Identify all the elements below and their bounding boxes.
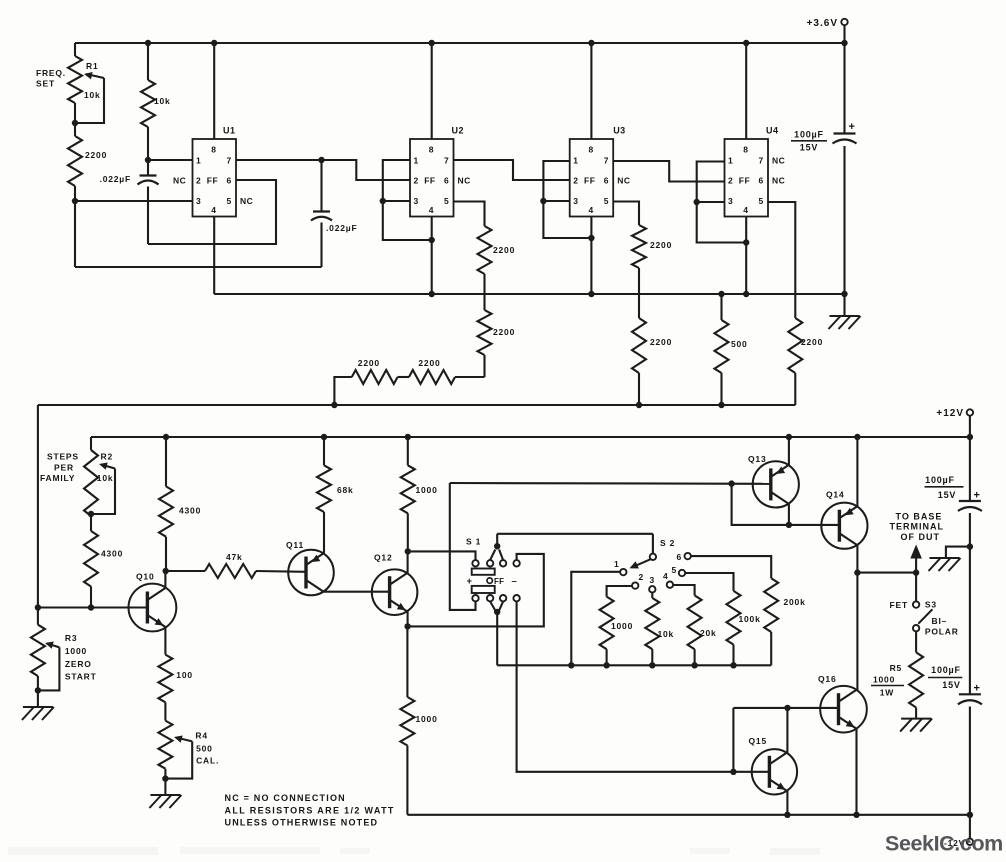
svg-text:UNLESS OTHERWISE NOTED: UNLESS OTHERWISE NOTED bbox=[225, 818, 379, 828]
wire Q16 base to Q15 base link bbox=[732, 708, 734, 772]
op-amp U1 flip-flop bbox=[193, 139, 237, 217]
svg-text:15V: 15V bbox=[938, 490, 956, 500]
svg-text:8: 8 bbox=[211, 145, 216, 155]
svg-text:7: 7 bbox=[759, 156, 764, 166]
svg-text:S 1: S 1 bbox=[466, 537, 481, 547]
transistor Q16 bbox=[820, 686, 867, 733]
resistor 1000 lower bbox=[406, 626, 408, 697]
resistor 47k bbox=[166, 570, 205, 572]
svg-text:–: – bbox=[512, 576, 517, 587]
svg-text:500: 500 bbox=[731, 339, 748, 349]
svg-text:6: 6 bbox=[677, 552, 683, 562]
wire U2 pin1 loop bbox=[383, 160, 432, 240]
svg-text:7: 7 bbox=[604, 156, 609, 166]
wire U1 pin3 bbox=[75, 200, 193, 202]
svg-text:2: 2 bbox=[414, 176, 419, 186]
node bottom rail right bbox=[967, 812, 973, 818]
svg-text:+12V: +12V bbox=[936, 408, 964, 419]
svg-text:500: 500 bbox=[196, 743, 213, 753]
node pin3 feed bbox=[72, 198, 78, 204]
resistor 2200 horizontal left bbox=[398, 376, 409, 378]
node U3 pin3 bbox=[540, 198, 546, 204]
svg-text:FF: FF bbox=[739, 176, 750, 186]
node S1 bottom common bbox=[494, 609, 500, 615]
wire S1 top terminals 2,3 common bbox=[490, 550, 495, 561]
node rail Q14 bbox=[854, 434, 860, 440]
wire Q10 collector bbox=[164, 571, 166, 588]
node R4 wiper bbox=[162, 775, 168, 781]
svg-text:2200: 2200 bbox=[358, 358, 380, 368]
svg-text:5: 5 bbox=[759, 196, 764, 206]
wire C2 bottom return bbox=[75, 266, 322, 268]
svg-text:TERMINAL: TERMINAL bbox=[890, 522, 945, 532]
resistor 10k vertical bbox=[147, 43, 149, 80]
svg-text:2200: 2200 bbox=[493, 327, 515, 337]
svg-text:U3: U3 bbox=[613, 126, 626, 136]
wire +12V rail bbox=[91, 436, 970, 438]
svg-text:STEPS: STEPS bbox=[47, 452, 79, 462]
svg-text:2200: 2200 bbox=[650, 337, 672, 347]
svg-text:100k: 100k bbox=[739, 614, 761, 624]
svg-text:10k: 10k bbox=[154, 96, 171, 106]
svg-text:2200: 2200 bbox=[85, 150, 107, 160]
capacitor 100uF 15V mid bbox=[959, 500, 981, 502]
wire U4 pin3 bbox=[697, 201, 725, 203]
capacitor 100uF 15V top bbox=[843, 43, 845, 134]
svg-text:FAMILY: FAMILY bbox=[40, 473, 75, 483]
wire horizontal 2200 to bus bbox=[334, 377, 351, 405]
svg-text:1: 1 bbox=[728, 156, 733, 166]
resistor 20k bank bbox=[673, 585, 695, 595]
node rail Q13 bbox=[786, 434, 792, 440]
wire Q11 collector to Q12 base bbox=[324, 591, 390, 593]
node Q15 collector / Q16 base bbox=[784, 705, 790, 711]
wire U1 pin1 bbox=[148, 159, 193, 161]
ground below R4 bbox=[150, 794, 180, 796]
wire Q16 emitter down bbox=[855, 728, 857, 814]
capacitor .022uF C1 bbox=[147, 160, 149, 176]
svg-text:SET: SET bbox=[36, 79, 55, 89]
wire S1 top rail to Q13 base bbox=[450, 482, 771, 485]
capacitor 100uF 15V bottom bbox=[959, 693, 981, 695]
node U1 pin7 / C2 bbox=[318, 157, 324, 163]
wire +3.6V top supply rail bbox=[75, 42, 845, 44]
svg-text:.022µF: .022µF bbox=[326, 223, 357, 233]
wire Q15 collector up bbox=[786, 708, 788, 753]
svg-text:FF: FF bbox=[207, 176, 218, 186]
wire pin4 common line bbox=[214, 293, 844, 295]
svg-text:1: 1 bbox=[414, 156, 419, 166]
svg-text:R4: R4 bbox=[195, 730, 207, 740]
svg-text:6: 6 bbox=[604, 176, 609, 186]
node U3 pin4 bus bbox=[588, 291, 594, 297]
wire -12V bottom rail bbox=[407, 814, 970, 816]
svg-text:1000: 1000 bbox=[416, 485, 438, 495]
node Q15 emitter rail bbox=[784, 812, 790, 818]
capacitor .022uF C2 bbox=[320, 160, 322, 212]
svg-text:4: 4 bbox=[429, 205, 434, 215]
ground below R5 bbox=[901, 718, 931, 720]
svg-text:START: START bbox=[65, 672, 97, 682]
svg-text:NC = NO CONNECTION: NC = NO CONNECTION bbox=[225, 793, 346, 803]
node Q12 emitter junction bbox=[404, 623, 410, 629]
svg-text:5: 5 bbox=[604, 196, 609, 206]
svg-text:5: 5 bbox=[444, 196, 449, 206]
wire U2 pin7 to U3 pin2 bbox=[454, 160, 570, 180]
resistor 68k bbox=[323, 437, 325, 465]
svg-text:5: 5 bbox=[672, 565, 678, 575]
svg-text:1: 1 bbox=[196, 156, 201, 166]
wire Q14 emitter to rail bbox=[856, 437, 858, 507]
node U2 pin3 bbox=[380, 198, 386, 204]
svg-text:6: 6 bbox=[227, 176, 232, 186]
wire U4 pin1 loop bbox=[697, 162, 747, 243]
svg-text:NC: NC bbox=[240, 196, 253, 206]
svg-text:+: + bbox=[974, 683, 980, 695]
svg-text:1000: 1000 bbox=[873, 675, 895, 685]
svg-text:Q16: Q16 bbox=[818, 674, 836, 684]
node Q13 collector / Q14 base bbox=[786, 522, 792, 528]
ground mid right bbox=[946, 547, 970, 558]
svg-text:+3.6V: +3.6V bbox=[807, 18, 838, 29]
svg-text:2: 2 bbox=[573, 176, 578, 186]
svg-text:POLAR: POLAR bbox=[925, 627, 959, 637]
wire U3 pin1 loop bbox=[543, 161, 591, 238]
svg-text:20k: 20k bbox=[700, 628, 717, 638]
node U1 pin1 bbox=[145, 157, 151, 163]
svg-text:47k: 47k bbox=[226, 552, 243, 562]
svg-text:NC: NC bbox=[772, 176, 785, 186]
op-amp U2 flip-flop bbox=[410, 139, 454, 217]
resistor 100k bank bbox=[685, 573, 733, 591]
resistor 2200 U2 chain lower bbox=[478, 310, 492, 355]
svg-text:R3: R3 bbox=[65, 633, 77, 643]
resistor 2200 U3 chain upper bbox=[632, 225, 646, 268]
svg-text:FF: FF bbox=[494, 577, 504, 586]
svg-text:NC: NC bbox=[458, 176, 471, 186]
node U3 chain bus bbox=[636, 402, 642, 408]
svg-text:+: + bbox=[849, 121, 855, 133]
wire S1 terminal4 to Q15 base bbox=[517, 601, 770, 771]
svg-text:2: 2 bbox=[196, 176, 201, 186]
terminal -12V bbox=[969, 815, 971, 839]
svg-text:R5: R5 bbox=[890, 663, 902, 673]
svg-text:Q12: Q12 bbox=[374, 553, 392, 563]
svg-text:Q11: Q11 bbox=[286, 540, 304, 550]
potentiometer R2 STEPS PER FAMILY 10k bbox=[90, 437, 92, 450]
wire S1 bottom terminals 2,3 common bbox=[490, 601, 495, 610]
svg-text:4: 4 bbox=[663, 571, 669, 581]
svg-text:200k: 200k bbox=[784, 597, 806, 607]
node 500 bus bbox=[718, 402, 724, 408]
resistor 1000 bank bbox=[607, 586, 633, 597]
svg-text:TO BASE: TO BASE bbox=[896, 511, 943, 521]
svg-text:NC: NC bbox=[173, 176, 186, 186]
wire U2 pin5 bbox=[454, 202, 485, 227]
wire Q16 base bbox=[733, 707, 838, 709]
terminal +3.6V bbox=[841, 19, 847, 25]
wire S1 to S2 common bbox=[497, 533, 653, 535]
node 4300 base junction bbox=[88, 604, 94, 610]
resistor R5 1000 1W bbox=[915, 631, 917, 652]
svg-text:6: 6 bbox=[444, 176, 449, 186]
svg-text:2200: 2200 bbox=[418, 358, 440, 368]
resistor 500 bbox=[718, 291, 724, 297]
wire S1 bottom common to bank bus bbox=[496, 612, 498, 665]
wire U1 pin4 down bbox=[213, 217, 215, 295]
ground lower left bbox=[23, 706, 53, 708]
node U2 pin4 loop bbox=[429, 237, 435, 243]
svg-text:2200: 2200 bbox=[801, 337, 823, 347]
svg-text:FREQ.: FREQ. bbox=[36, 68, 66, 78]
node S1 top common bbox=[494, 543, 500, 549]
svg-text:+: + bbox=[467, 576, 473, 587]
resistor 2200 U4 chain bbox=[788, 318, 802, 373]
wire Q13 base loop down bbox=[732, 484, 840, 525]
node terminal1 bus bbox=[568, 662, 574, 668]
op-amp U4 flip-flop bbox=[725, 139, 769, 217]
wire U4 pin5 bbox=[768, 202, 795, 318]
svg-text:4: 4 bbox=[589, 205, 594, 215]
wire U4 pin8 to rail bbox=[745, 43, 747, 139]
transistor Q10 bbox=[129, 584, 177, 632]
wire Q13 collector down bbox=[788, 504, 790, 525]
node U4 pin3 bbox=[694, 199, 700, 205]
svg-text:3: 3 bbox=[573, 196, 578, 206]
svg-text:S3: S3 bbox=[925, 600, 937, 610]
node R3 wiper bbox=[35, 687, 41, 693]
svg-text:U1: U1 bbox=[223, 126, 236, 136]
switch S3 FET/BI-POLAR bbox=[915, 573, 917, 602]
svg-text:2: 2 bbox=[728, 176, 733, 186]
svg-text:+: + bbox=[974, 490, 980, 502]
wire Q10 emitter bbox=[164, 627, 166, 655]
svg-text:FET: FET bbox=[890, 600, 908, 610]
wire U4 pin4 down bbox=[745, 217, 747, 295]
svg-text:3: 3 bbox=[650, 575, 656, 585]
svg-text:BI–: BI– bbox=[932, 616, 948, 626]
node Q10 collector junction bbox=[163, 568, 169, 574]
node rail 68k bbox=[321, 434, 327, 440]
svg-text:1: 1 bbox=[573, 156, 578, 166]
transistor Q12 bbox=[372, 569, 418, 615]
node ground tap bbox=[967, 543, 973, 549]
node Q15 base link bbox=[730, 769, 736, 775]
resistor 2200 U3 chain lower bbox=[632, 318, 646, 373]
wire U1 pin6 loop bbox=[148, 180, 276, 244]
wire Q12 collector up bbox=[407, 551, 409, 573]
wire Q10 base bbox=[38, 606, 147, 608]
wire U3 pin8 to rail bbox=[590, 43, 592, 139]
transistor Q14 bbox=[821, 503, 867, 549]
resistor 10k bank bbox=[651, 593, 653, 599]
svg-text:S 2: S 2 bbox=[660, 538, 675, 548]
node cap branch pin4 line bbox=[841, 291, 847, 297]
node U2 pin4 bus bbox=[429, 291, 435, 297]
wire lower bus bbox=[38, 404, 795, 406]
svg-text:NC: NC bbox=[617, 176, 630, 186]
svg-text:R2: R2 bbox=[101, 452, 113, 462]
node +12V rail right bbox=[967, 434, 973, 440]
potentiometer R1 FREQ. SET 10k bbox=[74, 43, 76, 56]
svg-text:8: 8 bbox=[743, 145, 748, 155]
svg-text:4: 4 bbox=[211, 205, 216, 215]
svg-text:U4: U4 bbox=[766, 126, 779, 136]
wire U1 pin7 to U2 pin2 bbox=[322, 160, 411, 180]
svg-text:Q13: Q13 bbox=[748, 454, 766, 464]
arrow TO BASE TERMINAL OF DUT bbox=[915, 556, 917, 573]
svg-text:100µF: 100µF bbox=[931, 665, 961, 675]
svg-text:10k: 10k bbox=[97, 473, 114, 483]
svg-text:6: 6 bbox=[759, 176, 764, 186]
svg-text:2200: 2200 bbox=[650, 240, 672, 250]
wire S2 terminal1 to bus bbox=[571, 572, 620, 666]
transistor Q15 bbox=[752, 749, 797, 794]
svg-text:15V: 15V bbox=[942, 680, 960, 690]
svg-text:1000: 1000 bbox=[416, 714, 438, 724]
wire U3 pin4 down bbox=[590, 217, 592, 295]
wire U2 pin4 down bbox=[431, 217, 433, 295]
svg-text:NC: NC bbox=[772, 156, 785, 166]
svg-text:7: 7 bbox=[444, 156, 449, 166]
wire U3 pin7 to U4 pin2 bbox=[613, 161, 724, 182]
node left border base bbox=[35, 604, 41, 610]
ground top right bbox=[843, 294, 845, 316]
resistor 2200 U2 chain upper bbox=[478, 226, 492, 274]
svg-text:3: 3 bbox=[196, 196, 201, 206]
svg-text:100µF: 100µF bbox=[794, 130, 824, 140]
node U3 pin4 loop bbox=[588, 235, 594, 241]
node DUT branch bbox=[913, 569, 919, 575]
node U4 pin4 loop bbox=[743, 239, 749, 245]
node Q13 base loop bbox=[728, 480, 734, 486]
transistor Q11 bbox=[288, 550, 334, 596]
svg-text:68k: 68k bbox=[337, 485, 354, 495]
svg-text:2200: 2200 bbox=[493, 245, 515, 255]
svg-text:10k: 10k bbox=[658, 629, 675, 639]
svg-text:4300: 4300 bbox=[101, 549, 123, 559]
svg-text:ALL RESISTORS ARE 1/2 WATT: ALL RESISTORS ARE 1/2 WATT bbox=[225, 806, 395, 816]
node R1 wiper junction bbox=[72, 120, 78, 126]
wire right supply rail bbox=[969, 437, 971, 501]
resistor 1000 upper bbox=[407, 437, 409, 465]
svg-text:3: 3 bbox=[728, 196, 733, 206]
node Q16 emitter rail bbox=[853, 812, 859, 818]
svg-text:1000: 1000 bbox=[611, 621, 633, 631]
node +3.6V rail / capacitor branch bbox=[841, 40, 847, 46]
svg-text:2: 2 bbox=[639, 572, 645, 582]
resistor 2200 horizontal right bbox=[455, 376, 485, 378]
svg-text:U2: U2 bbox=[452, 126, 465, 136]
wire Q13 emitter to rail bbox=[788, 437, 790, 465]
svg-text:Q15: Q15 bbox=[749, 736, 767, 746]
wire Q14 collector down to Q16 bbox=[856, 545, 858, 690]
node 2200 bus junction bbox=[331, 402, 337, 408]
wire Q12 collector to S1 bbox=[408, 551, 476, 560]
svg-text:8: 8 bbox=[589, 145, 594, 155]
terminal +12V bbox=[967, 409, 973, 415]
svg-text:PER: PER bbox=[54, 463, 74, 473]
svg-text:1: 1 bbox=[614, 559, 620, 569]
node Q14 collector junction bbox=[854, 569, 860, 575]
svg-text:100: 100 bbox=[176, 670, 193, 680]
svg-text:7: 7 bbox=[227, 156, 232, 166]
wire Q15 emitter down bbox=[786, 791, 788, 815]
wire U3 pin5 bbox=[613, 202, 639, 226]
wire U1 pin8 to rail bbox=[213, 43, 215, 139]
svg-text:1000: 1000 bbox=[65, 646, 87, 656]
svg-text:R1: R1 bbox=[86, 61, 98, 71]
node rail 4300 bbox=[163, 434, 169, 440]
svg-text:1W: 1W bbox=[880, 688, 895, 698]
node R2 wiper bbox=[88, 511, 94, 517]
svg-text:Q14: Q14 bbox=[826, 490, 844, 500]
wire Q11 emitter up bbox=[323, 512, 325, 553]
svg-text:5: 5 bbox=[227, 196, 232, 206]
wire U1 pin7 bbox=[236, 159, 322, 161]
wire Q12 emitter down bbox=[407, 611, 409, 626]
svg-text:4300: 4300 bbox=[179, 506, 201, 516]
wire left border bbox=[37, 405, 39, 625]
svg-text:3: 3 bbox=[414, 196, 419, 206]
node rail 1000 bbox=[405, 434, 411, 440]
resistor 2200 below R1 bbox=[68, 136, 82, 186]
potentiometer R4 500 CAL. bbox=[158, 721, 172, 769]
svg-text:OF DUT: OF DUT bbox=[901, 532, 941, 542]
wire U2 pin8 to rail bbox=[431, 43, 433, 139]
svg-text:100µF: 100µF bbox=[925, 475, 955, 485]
svg-text:10k: 10k bbox=[84, 90, 101, 100]
svg-text:.022µF: .022µF bbox=[100, 174, 131, 184]
svg-text:8: 8 bbox=[429, 145, 434, 155]
svg-text:Q10: Q10 bbox=[136, 572, 154, 582]
potentiometer R3 1000 ZERO START bbox=[31, 625, 45, 676]
svg-text:4: 4 bbox=[743, 205, 748, 215]
resistor 100 bbox=[158, 655, 172, 703]
svg-text:15V: 15V bbox=[800, 143, 818, 153]
svg-text:CAL.: CAL. bbox=[196, 756, 219, 766]
node U4 pin4 bus bbox=[743, 291, 749, 297]
resistor 4300 right bbox=[165, 437, 167, 486]
wire U2 pin3 bbox=[383, 200, 410, 202]
wire bank bus bbox=[497, 664, 771, 666]
node Q12 collector junction bbox=[405, 548, 411, 554]
svg-text:FF: FF bbox=[424, 176, 435, 186]
svg-text:SeekIC.com: SeekIC.com bbox=[885, 832, 1003, 856]
resistor 4300 left bbox=[84, 531, 98, 587]
wire U3 pin3 bbox=[543, 200, 569, 202]
transistor Q13 bbox=[753, 461, 799, 507]
svg-text:ZERO: ZERO bbox=[65, 659, 92, 669]
node rail 10k bbox=[145, 40, 151, 46]
op-amp U3 flip-flop bbox=[570, 139, 614, 217]
resistor 200k bank bbox=[691, 556, 771, 578]
svg-text:FF: FF bbox=[584, 176, 595, 186]
wire Q12 emitter to S1 right rail bbox=[408, 554, 544, 627]
wire to DUT arrow node bbox=[857, 572, 916, 574]
